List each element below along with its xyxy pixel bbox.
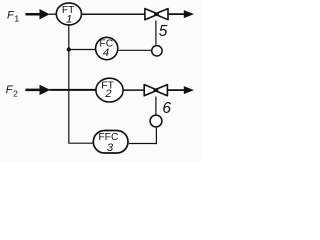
- svg-text:5: 5: [159, 23, 168, 40]
- svg-text:1: 1: [14, 13, 19, 23]
- svg-text:2: 2: [104, 88, 112, 100]
- svg-text:1: 1: [66, 14, 72, 26]
- svg-text:2: 2: [13, 88, 18, 98]
- svg-text:6: 6: [162, 100, 171, 117]
- svg-text:3: 3: [107, 142, 114, 154]
- svg-text:4: 4: [103, 47, 109, 59]
